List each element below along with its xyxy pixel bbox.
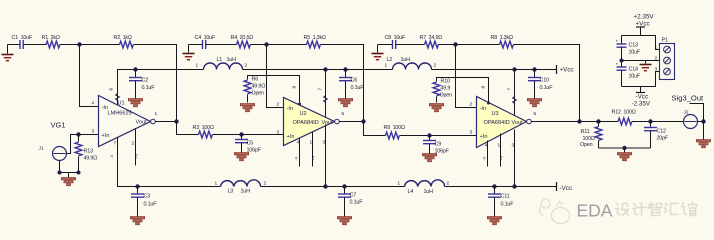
hanzi 计 [633,203,647,216]
wire U3 pin 7 [514,70,516,117]
svg-text:C1 10uF: C1 10uF [12,35,33,41]
svg-text:U2: U2 [300,111,307,117]
svg-text:4: 4 [485,143,488,149]
svg-text:EDA: EDA [577,201,613,221]
svg-text:+V: +V [135,153,139,158]
wire [400,135,477,137]
svg-text:+In: +In [480,134,488,140]
wire feedback to U2 output [321,45,364,122]
capacitor C3 [131,187,157,217]
svg-text:R1 2kΩ: R1 2kΩ [42,35,60,41]
svg-text:3: 3 [512,143,515,149]
inductor L4 (gap in rail) [405,182,445,191]
node C7 tap [342,184,346,188]
wire [432,69,557,71]
svg-text:R12 100Ω: R12 100Ω [612,110,636,116]
wire [206,44,237,46]
wire [8,44,20,46]
svg-text:0.1uF: 0.1uF [501,202,515,208]
inductor L3 (gap in rail) [221,182,261,191]
resistor R9 [384,125,405,139]
wire J1 shield down [59,161,61,173]
wire [439,44,500,46]
svg-text:-Vcc: -Vcc [636,94,649,101]
svg-text:+2.35V: +2.35V [634,14,655,21]
wire [243,69,393,71]
svg-text:-In: -In [287,106,294,112]
svg-text:Open: Open [580,142,593,148]
svg-text:-Vcc: -Vcc [560,185,573,192]
svg-text:0.1uF: 0.1uF [351,85,365,91]
wire [60,44,120,46]
svg-text:+: + [616,40,619,45]
svg-text:C12: C12 [657,129,666,135]
svg-text:OPA684ID: OPA684ID [484,120,510,126]
node C11 tap [492,184,496,188]
op-amp U1 [92,96,158,147]
resistor R8 [491,35,514,48]
svg-text:R13: R13 [84,149,93,155]
ground under C5 [234,153,248,161]
svg-text:C6: C6 [351,78,358,84]
svg-text:-In: -In [480,106,487,112]
node A2 (R4/R5/U2 -In junction) [264,42,268,46]
wire bottom of R11/C12 [599,147,651,149]
svg-text:2: 2 [132,141,135,147]
svg-text:+Vcc: +Vcc [560,67,574,74]
svg-text:10uF: 10uF [629,74,641,80]
svg-text:7: 7 [318,88,324,91]
svg-text:R7 24.9Ω: R7 24.9Ω [420,35,443,41]
svg-text:2: 2 [470,102,473,108]
node C9 tap [427,133,431,137]
wire to U2 -In [267,45,284,108]
ground G-C1 [2,45,14,61]
svg-text:2: 2 [434,63,437,69]
svg-text:1: 1 [498,143,501,149]
capacitor C13 [616,36,641,68]
svg-text:C11: C11 [501,194,510,200]
svg-text:Sig3_Out: Sig3_Out [672,94,705,103]
svg-text:0.1uF: 0.1uF [144,202,158,208]
svg-text:+V: +V [312,155,316,160]
svg-text:3: 3 [323,140,326,146]
svg-text:OPA684ID: OPA684ID [293,120,319,126]
capacitor C5 [235,135,262,154]
svg-text:-V: -V [483,156,487,160]
resistor R13 [75,135,97,173]
svg-text:8: 8 [481,86,487,89]
wire feedback to U3 output [514,45,580,122]
ground under R6 [240,104,254,112]
node A3 (R7/R8/U3 -In junction) [453,42,457,46]
svg-text:0.1uF: 0.1uF [540,85,554,91]
svg-text:L3: L3 [228,189,234,195]
svg-text:C13: C13 [629,43,638,49]
svg-text:C8 10uF: C8 10uF [385,35,406,41]
hanzi 馆 [682,202,697,216]
svg-text:49.9Ω: 49.9Ω [84,156,98,162]
node C12 tap [648,119,652,123]
wire [378,44,393,46]
svg-text:2: 2 [655,56,658,62]
svg-text:1: 1 [655,45,658,51]
wire [213,134,284,136]
-Vcc port [632,87,651,108]
svg-text:C3: C3 [144,194,151,200]
svg-text:3: 3 [277,130,280,136]
svg-text:6: 6 [342,111,345,117]
svg-text:R9 100Ω: R9 100Ω [384,125,405,131]
svg-text:C5: C5 [247,141,254,147]
op-amp U2 [277,98,345,146]
svg-text:3: 3 [655,67,658,73]
svg-text:2: 2 [245,63,248,69]
ground under R10 [429,104,443,112]
svg-text:+: + [616,63,619,68]
capacitor C12 [644,122,669,149]
svg-text:C4 10uF: C4 10uF [195,35,216,41]
wire to U1 -In [80,45,99,107]
svg-text:C7: C7 [350,193,357,199]
node C5 tap [239,132,243,136]
svg-text:10uF: 10uF [629,50,641,56]
svg-text:20pF: 20pF [657,136,669,142]
node U3 out [577,119,581,123]
ground under C9 [422,154,436,162]
resistor R1 [42,35,60,48]
wire J1 to +In [67,135,99,154]
svg-text:R2 1kΩ: R2 1kΩ [114,35,132,41]
hanzi 汇 [665,204,679,215]
wire down from U1 out [177,122,199,135]
svg-text:2: 2 [277,102,280,108]
svg-text:L2: L2 [387,57,393,63]
svg-text:L1: L1 [217,57,223,63]
+Vcc power port [557,65,574,74]
resistor R11 [580,122,602,149]
svg-text:P1: P1 [662,38,668,44]
ground for C4 [183,45,195,60]
U3 output wire [532,121,684,123]
svg-text:C9: C9 [435,142,442,148]
+Vcc port [634,14,655,36]
svg-text:1: 1 [385,63,388,69]
capacitor C7 [338,187,363,217]
bottom wire [622,72,660,87]
node U3 V- tap [512,184,516,188]
top wire [622,36,660,50]
node U2 out [361,119,365,123]
resistor R7 [420,35,443,48]
svg-text:C14: C14 [629,67,638,73]
node C10 tap [532,67,536,71]
resistor R12 (gap in wire) [606,117,646,127]
U1 output wire [156,121,177,123]
svg-text:LMH6629: LMH6629 [108,111,132,117]
resistor R5 [304,35,326,48]
op-amp U3 [470,97,537,148]
node C6 tap [343,67,347,71]
svg-text:Vout: Vout [322,120,334,126]
svg-text:1uH: 1uH [227,57,237,63]
svg-text:R3 100Ω: R3 100Ω [193,125,214,131]
ground under R11/C12 [617,148,631,161]
svg-text:3: 3 [92,129,95,135]
svg-text:R6: R6 [252,77,259,83]
svg-text:R10: R10 [441,79,450,85]
svg-text:7: 7 [507,88,513,91]
svg-text:1: 1 [215,181,218,187]
svg-text:-V: -V [110,154,114,158]
svg-text:1uH: 1uH [424,189,434,195]
svg-text:0.1uF: 0.1uF [350,200,364,206]
resistor R4 [231,35,254,48]
capacitor C4 [195,35,216,49]
svg-text:49.9: 49.9 [441,86,451,92]
node C3 tap [135,184,139,188]
svg-text:1: 1 [155,111,158,117]
svg-text:Vout: Vout [512,120,524,126]
capacitor C10 [528,70,553,99]
svg-text:L4: L4 [408,189,414,195]
svg-text:4: 4 [92,101,95,107]
node U2 V+ tap [323,67,327,71]
wire [251,44,307,46]
capacitor C11 [488,187,514,217]
svg-text:Vout: Vout [136,120,148,126]
wire J2 right [698,121,704,123]
node A1 (R1/R2/-In junction) [77,42,81,46]
svg-text:1: 1 [310,140,313,146]
svg-text:2: 2 [264,181,267,187]
svg-text:-V: -V [295,156,299,160]
-Vcc power port [557,182,573,192]
wire U2 pin 7 [325,70,327,118]
hanzi 设 [616,204,629,216]
svg-text:Open: Open [252,91,265,97]
disable network R10 [433,78,488,106]
svg-text:U1: U1 [118,101,125,107]
ground under C2 [128,99,142,107]
inductor L1 [196,57,248,70]
connector P1 [655,38,675,80]
ground under C3 [130,217,144,225]
node R13 tap [76,132,80,136]
U1 stub pin 2 [135,129,137,166]
capacitor C9 [423,136,450,155]
svg-text:+In: +In [102,133,110,139]
svg-text:R11: R11 [581,129,590,135]
svg-text:VG1: VG1 [51,121,66,130]
node R11 tap [596,119,600,123]
connector J1 [39,146,67,161]
svg-text:3: 3 [470,130,473,136]
U2 output wire [340,121,364,123]
node mid bus [620,59,624,63]
capacitor C1 [12,35,33,49]
svg-text:R4 20.5Ω: R4 20.5Ω [231,35,254,41]
ground under C11 [487,217,501,225]
svg-text:-2.35V: -2.35V [632,101,651,108]
svg-text:2: 2 [447,181,450,187]
net label Sig3_Out [672,94,705,122]
svg-text:+In: +In [287,134,295,140]
svg-text:1: 1 [196,63,199,69]
svg-text:Open: Open [440,93,453,99]
wire to U3 -In [456,45,477,108]
rotated pin names U1 [110,153,504,160]
capacitor C14 [616,63,641,87]
node U3 V+ tap [512,67,516,71]
capacitor C2 [129,70,155,99]
svg-text:7: 7 [114,141,117,147]
wire [396,44,425,46]
ground for C8 [372,45,384,60]
svg-text:6: 6 [534,111,537,117]
svg-text:1uH: 1uH [241,189,251,195]
U2 stub pins [299,138,301,167]
svg-text:6: 6 [109,88,115,91]
wire corner to U1 V+ pin [118,70,204,105]
svg-text:C2: C2 [142,78,149,84]
wire bottom [60,172,79,174]
connector J2 [684,110,698,129]
node C2 tap [133,67,137,71]
hanzi 智 [649,203,662,216]
ground mid [640,61,652,71]
svg-text:49.9Ω: 49.9Ω [252,84,266,90]
svg-text:1: 1 [398,181,401,187]
U1 bottom pin to -Vcc rail [118,138,557,187]
middle wire [622,60,660,62]
resistor R3 [193,125,214,138]
resistor R2 [114,35,134,48]
svg-text:R5 1.3kΩ: R5 1.3kΩ [304,35,326,41]
U3 bottom pin to -Vcc rail [514,130,516,187]
ground under J2 [696,122,710,148]
inductor L2 [385,57,437,70]
wire feedback to U1 output [134,45,177,122]
svg-text:U3: U3 [492,111,499,117]
wire down from U2 out [364,122,386,136]
svg-text:C10: C10 [540,78,549,84]
svg-text:0.1uF: 0.1uF [142,85,156,91]
svg-text:4: 4 [297,140,300,146]
U3 stub pins [487,141,489,167]
ground under C10 [527,99,541,107]
wire [189,44,203,46]
svg-text:8: 8 [292,86,298,89]
ground VG1 [61,173,75,186]
wire [24,44,47,46]
svg-text:J1: J1 [39,146,44,152]
pin decoration zigzags [116,94,517,104]
ground under C7 [337,217,351,225]
disable network R6 [244,76,299,107]
U2 bottom pin to -Vcc rail [325,125,327,187]
svg-text:R8 1.3kΩ: R8 1.3kΩ [491,35,513,41]
svg-text:+V: +V [500,155,504,160]
capacitor C8 [385,35,406,49]
svg-text:1uH: 1uH [401,57,411,63]
node U2 V- tap [323,184,327,188]
ground under C6 [338,99,352,107]
capacitor C6 [339,70,364,99]
node U1 out [174,119,178,123]
